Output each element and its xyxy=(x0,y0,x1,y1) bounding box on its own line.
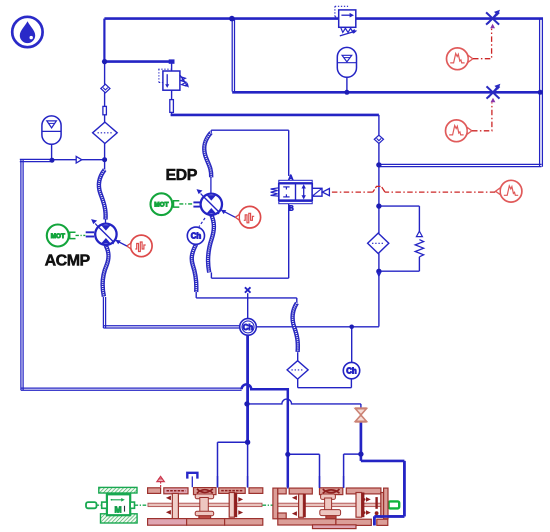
hose EDP outlet xyxy=(208,215,214,273)
hose return to filter3 xyxy=(293,303,298,352)
servo block xyxy=(320,488,343,495)
pump EDP xyxy=(193,189,222,227)
wire: branch left from bowtie dot y=454.1 xyxy=(344,453,361,455)
check Ch1 on return manifold xyxy=(240,319,257,336)
check valve diamond D1 xyxy=(101,84,110,93)
wire: bowtie lower runs xyxy=(360,454,363,461)
rod line through group2 xyxy=(277,503,388,506)
wire: vertical x=378.9 segments xyxy=(378,115,380,136)
svg-text:M: M xyxy=(114,505,121,515)
signal source S2 xyxy=(446,120,472,142)
relief valve R1 xyxy=(158,69,189,90)
signal PWM circle for EDP xyxy=(235,206,260,228)
wire: branch to spring valve y=206.1 xyxy=(379,205,420,207)
solenoid valve V1 (EDP bypass) xyxy=(271,173,330,212)
wire: left drop from top line x=104.4 xyxy=(103,19,105,62)
wire: relief R1 stem bottom to orifice xyxy=(171,90,173,100)
hose EDP inlet xyxy=(204,133,211,178)
orifice O1 above filter1 xyxy=(103,106,107,114)
relief valve R2 xyxy=(335,6,357,36)
chamber arrows xyxy=(292,496,297,501)
wire: left reservoir double pipe loop xyxy=(20,158,52,160)
red bleed arrow above left actuator xyxy=(157,476,164,487)
accumulator A1 xyxy=(42,116,61,144)
signal dash-dot S1 to VO1 xyxy=(473,29,492,59)
wire: y=326.6 horizontal xyxy=(256,326,379,328)
electric motor M (green, hatched mounts) xyxy=(86,487,137,523)
variable orifice VO1 xyxy=(486,10,500,29)
wire: reservoir line y=159.7 with check xyxy=(52,159,105,161)
motor MOT (EDP) xyxy=(151,193,194,215)
filter F3 xyxy=(287,361,308,379)
pistons xyxy=(299,494,304,517)
wire: y=387.7 filter3 to Ch2 xyxy=(298,387,352,389)
variable orifice VO2 xyxy=(487,84,501,103)
logo water drop icon xyxy=(12,17,42,47)
svg-text:EDP: EDP xyxy=(166,167,198,184)
wire: orifice to corner xyxy=(171,112,173,116)
signal dash-dot S2 to VO2 xyxy=(472,103,492,131)
wire: branch left from heavy vertical y=442.2 xyxy=(218,441,248,443)
wire: branch y=61.6 to relief valve R1 xyxy=(104,60,171,63)
spring relief SP1 right branch xyxy=(415,231,423,257)
wire: bowtie stems xyxy=(360,404,362,409)
wire: ACMP inlet hose to pump stub xyxy=(105,219,107,225)
wire: EDP drain line y=297.9 xyxy=(196,297,297,299)
wire: EDP suction line y=130.2 xyxy=(211,129,289,131)
wire: branch right from V2 y=454.3 xyxy=(288,453,320,455)
green rod end box (right) xyxy=(389,501,400,508)
svg-text:ACMP: ACMP xyxy=(45,252,91,269)
top bars xyxy=(148,488,161,494)
check Ch2 near filter3 xyxy=(343,362,359,378)
control arrow into ACMP xyxy=(115,240,127,246)
wire: filter3 top stem xyxy=(297,352,299,361)
node x marker xyxy=(245,287,251,292)
wire: filter3 bottom stem xyxy=(297,379,299,388)
relief R1 top port cap xyxy=(169,59,175,63)
wire: Ch2 bottom stem xyxy=(350,379,352,388)
signal dash-dot S3 to solenoid with crossover hump xyxy=(330,186,495,192)
top bars xyxy=(289,488,312,494)
motor MOT (ACMP) xyxy=(47,225,86,247)
signal source S3 (valve command) xyxy=(496,180,522,202)
hose EDP case drain xyxy=(192,244,197,292)
bottom bars xyxy=(278,519,336,525)
wire: node x stem down to Ch1 xyxy=(247,293,249,319)
orifice O2 below relief R1 xyxy=(170,100,174,113)
wire: EDP delivery to valve port B xyxy=(288,204,290,279)
accumulator A2 xyxy=(337,47,356,77)
rod line through group1 xyxy=(148,503,262,506)
wire: EDP inlet hose to pump stub xyxy=(210,177,212,195)
filter F2 xyxy=(368,233,389,253)
check arrow on reservoir line xyxy=(76,156,82,163)
svg-text:MOT: MOT xyxy=(154,202,168,209)
signal PWM circle for ACMP xyxy=(127,235,152,257)
check valve diamond D2 xyxy=(374,135,383,143)
wire: acc2 stem xyxy=(346,77,348,92)
wire: return line y=92.3 xyxy=(232,91,541,94)
control arrow into EDP xyxy=(221,210,236,218)
svg-text:B: B xyxy=(289,203,294,212)
wire: heavy vertical below Ch1 xyxy=(246,335,249,442)
svg-text:Ch: Ch xyxy=(243,323,254,332)
wire: Ch2 top stem xyxy=(351,327,353,363)
wire: y=403.9 branch to bowtie with bump over V2 xyxy=(248,399,361,404)
piston 2 xyxy=(229,493,234,518)
pump ACMP xyxy=(86,219,117,245)
wire: feed line overlay right actuator xyxy=(218,461,405,526)
piston 1 xyxy=(172,493,178,518)
wire: bump over heavy vertical and to V2 corner xyxy=(242,384,288,487)
signal source S1 (top right) xyxy=(447,48,473,70)
wire: accumulator1 stem xyxy=(51,144,53,160)
green drive dash-dot lines xyxy=(135,504,389,506)
wire: filter1 column x=104.6 xyxy=(104,62,106,85)
svg-text:Ch: Ch xyxy=(191,232,202,241)
right end caps xyxy=(381,493,386,518)
svg-text:MOT: MOT xyxy=(51,233,65,240)
spool I-shape xyxy=(195,494,214,499)
wire: right edge double pipe xyxy=(539,18,541,167)
wire: double line y=165.5 xyxy=(379,163,542,165)
svg-text:Ch: Ch xyxy=(346,367,357,376)
wire: HP line y=114.9 xyxy=(171,114,379,117)
left bracket xyxy=(273,488,278,519)
hose ACMP outlet xyxy=(103,245,109,296)
clamp symbol above left actuator xyxy=(187,473,197,487)
chamber arrows xyxy=(166,496,171,501)
filter F1 xyxy=(93,122,118,143)
spool I-shape xyxy=(321,494,336,499)
check Ch below EDP xyxy=(187,227,204,244)
wire: relief R1 stem top xyxy=(171,60,173,71)
wire: reservoir double pipe x=233 xyxy=(231,20,233,92)
svg-text:A: A xyxy=(288,173,293,182)
wire: ACMP double pipe xyxy=(102,297,104,328)
servo block xyxy=(194,488,217,495)
bottom bars xyxy=(148,519,187,526)
exclamation feature xyxy=(375,497,377,509)
flow arrow below filter2 junction xyxy=(376,272,381,278)
hose ACMP inlet xyxy=(99,170,106,220)
bowtie valve (mechanical stop) xyxy=(355,408,367,421)
